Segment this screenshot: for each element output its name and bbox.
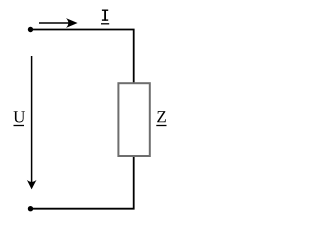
svg-text:Z: Z <box>156 107 166 126</box>
svg-text:U: U <box>13 107 25 126</box>
